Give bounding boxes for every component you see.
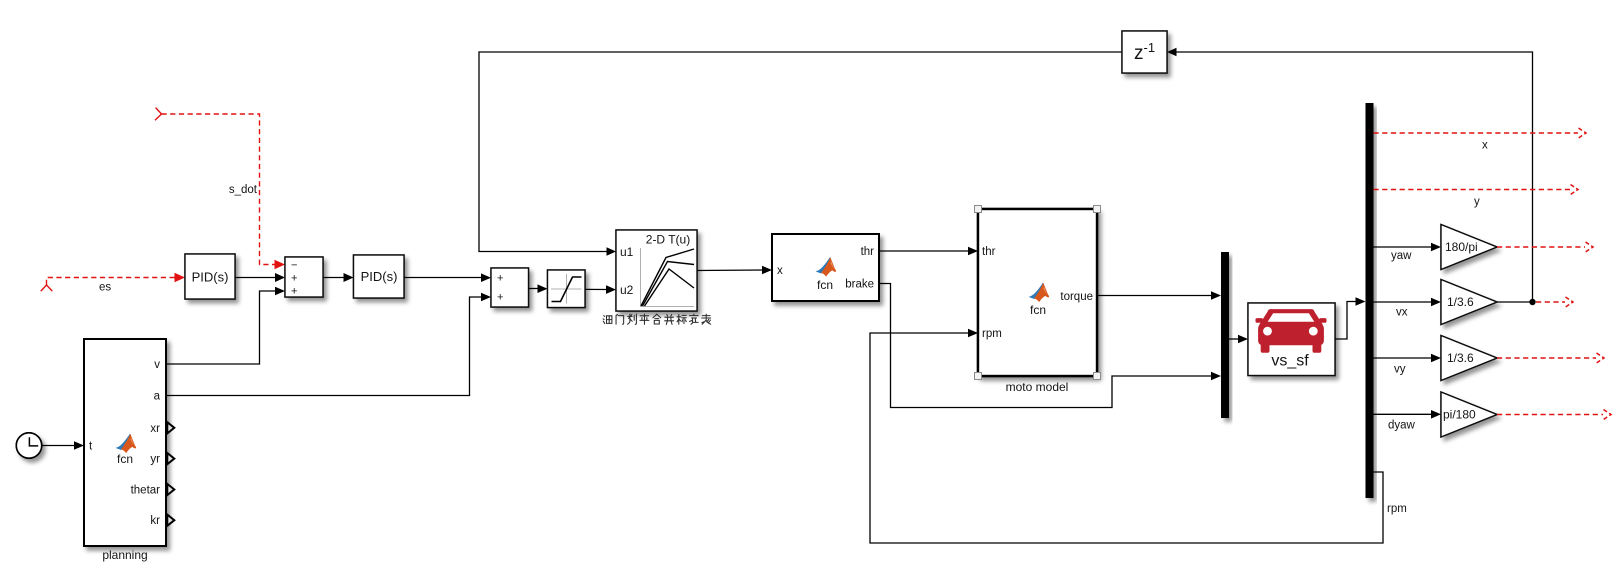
svg-text:fcn: fcn: [117, 452, 133, 466]
svg-text:180/pi: 180/pi: [1445, 240, 1478, 254]
wire sum2 to saturation: [529, 284, 548, 293]
svg-text:yaw: yaw: [1391, 250, 1412, 262]
wire vs_sf to demux: [1335, 297, 1366, 339]
gain pi/180: [1441, 392, 1497, 437]
svg-text:rpm: rpm: [1387, 503, 1407, 515]
gain 1/3.6 (vy): [1441, 336, 1497, 381]
junction dot: [1529, 299, 1535, 305]
svg-text:es: es: [99, 282, 111, 294]
svg-text:yr: yr: [150, 454, 160, 466]
wire vy demux to gain3: [1374, 354, 1442, 363]
red dangling source s_dot: [155, 108, 285, 270]
red output x: [1374, 128, 1587, 138]
gain 1/3.6 (vx): [1441, 280, 1497, 325]
svg-text:fcn: fcn: [817, 278, 833, 292]
svg-text:vs_sf: vs_sf: [1271, 353, 1309, 370]
wire yaw demux to gain1: [1374, 243, 1442, 252]
svg-text:+: +: [291, 273, 297, 285]
svg-text:−: −: [291, 260, 297, 272]
svg-text:x: x: [777, 265, 783, 277]
svg-text:planning: planning: [102, 548, 147, 562]
wire PID2 to sum2: [404, 273, 491, 282]
svg-text:y: y: [1474, 196, 1480, 208]
wire a from planning to sum2: [166, 293, 491, 396]
mux bar: [1221, 252, 1229, 418]
clock block: [16, 433, 41, 458]
block vs_sf with car icon: [1248, 303, 1335, 376]
red output after gain3: [1497, 353, 1604, 363]
subsystem moto model (selected): [975, 206, 1101, 380]
red output after 180/pi: [1497, 242, 1593, 252]
svg-text:u1: u1: [620, 245, 634, 259]
svg-text:thr: thr: [982, 246, 996, 258]
svg-text:vy: vy: [1394, 364, 1406, 376]
subsystem planning: [84, 339, 174, 546]
svg-text:torque: torque: [1060, 291, 1093, 303]
wire sum1 to PID2: [323, 273, 354, 282]
wire from vx junction up to unit delay input: [1167, 48, 1533, 302]
wire brake fcn1 to mux: [879, 284, 1221, 408]
svg-text:1/3.6: 1/3.6: [1447, 351, 1474, 365]
svg-text:vx: vx: [1396, 307, 1408, 319]
demux bar: [1366, 103, 1374, 498]
svg-text:thr: thr: [861, 246, 875, 258]
svg-text:fcn: fcn: [1030, 303, 1046, 317]
sum block sum1: [285, 257, 323, 298]
wire PID1 to sum1: [235, 273, 285, 282]
svg-text:brake: brake: [845, 279, 874, 291]
unit delay block z^-1: [1122, 31, 1167, 73]
wire torque moto to mux: [1097, 291, 1221, 300]
wire v from planning to sum1: [166, 287, 285, 364]
svg-text:xr: xr: [150, 423, 160, 435]
MATLAB function block fcn1: [772, 234, 879, 301]
svg-text:rpm: rpm: [982, 328, 1002, 340]
svg-text:+: +: [497, 292, 503, 304]
red output y: [1374, 185, 1579, 195]
red output after junction: [1536, 297, 1573, 307]
unconnected output ports xr yr thetar kr: [167, 422, 174, 433]
svg-text:a: a: [154, 391, 161, 403]
block PID1: [185, 254, 235, 299]
svg-text:s_dot: s_dot: [229, 184, 258, 196]
wire mux to vs_sf: [1229, 335, 1248, 344]
svg-text:pi/180: pi/180: [1443, 408, 1476, 422]
svg-text:2-D T(u): 2-D T(u): [646, 233, 690, 247]
wire saturation to lookup u2: [585, 285, 616, 294]
wire thr fcn1 to moto: [879, 247, 978, 256]
wire rpm feedback from demux to moto: [870, 329, 1383, 543]
svg-text:PID(s): PID(s): [192, 270, 229, 285]
label (chinese) below lookup table: [603, 314, 711, 324]
block PID2: [354, 255, 405, 298]
svg-text:+: +: [291, 286, 297, 298]
wire vx demux to gain2: [1374, 298, 1442, 307]
svg-text:dyaw: dyaw: [1388, 420, 1416, 432]
wire clock to planning: [42, 441, 84, 450]
red dangling source es: [41, 273, 185, 291]
wire feedback from unit delay output down to lookup u1: [479, 52, 1122, 256]
svg-text:kr: kr: [150, 515, 160, 527]
svg-text:thetar: thetar: [131, 485, 161, 497]
svg-text:+: +: [497, 273, 503, 285]
sum block sum2: [491, 268, 529, 307]
wire gain2 to junction: [1497, 301, 1533, 303]
red output after gain4: [1497, 410, 1611, 420]
wire lookup to fcn1: [697, 266, 772, 275]
wire dyaw demux to gain4: [1374, 410, 1442, 419]
svg-text:1/3.6: 1/3.6: [1447, 295, 1474, 309]
svg-text:moto model: moto model: [1006, 380, 1069, 394]
svg-text:u2: u2: [620, 283, 634, 297]
2-D lookup table block: [616, 230, 697, 311]
svg-text:v: v: [154, 359, 160, 371]
saturation block: [548, 270, 586, 308]
svg-text:PID(s): PID(s): [361, 269, 398, 284]
svg-text:x: x: [1482, 140, 1488, 152]
gain 180/pi: [1441, 225, 1497, 270]
